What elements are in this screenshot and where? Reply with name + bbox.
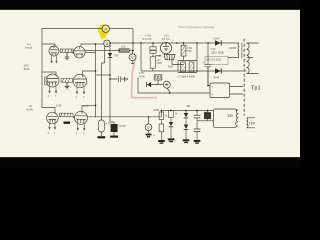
- heater pins row3: [49, 123, 86, 130]
- svg-text:D247: D247: [214, 37, 221, 41]
- series resistor to voltmeter V1 (grey box): [119, 49, 129, 53]
- rectifier module: [208, 67, 243, 98]
- svg-text:4,7k: 4,7k: [106, 121, 112, 125]
- svg-text:5B: 5B: [187, 104, 191, 108]
- svg-text:100: 100: [121, 45, 126, 49]
- svg-text:A: A: [104, 26, 107, 31]
- svg-text:7D5: 7D5: [114, 53, 119, 57]
- transformer Tp1 primary: [228, 43, 242, 59]
- tube V2a: [46, 74, 59, 87]
- svg-text:C10: C10: [211, 47, 216, 51]
- svg-text:V: V: [131, 55, 134, 60]
- bleeder resistor pair: [178, 43, 197, 73]
- grid bracket at tube V2a: [45, 77, 48, 85]
- wire: row3 feed: [42, 108, 55, 113]
- svg-text:C40 100,0(16): C40 100,0(16): [207, 60, 222, 62]
- wire: bus x101.5: [102, 63, 105, 120]
- resistor 470k: [181, 43, 186, 61]
- resistor R2 between row2 tubes: [61, 79, 73, 83]
- stack S4: electrolytics: [194, 111, 201, 140]
- ammeter A1: [102, 25, 109, 32]
- tube V2b: [73, 74, 87, 88]
- svg-text:500n: 500n: [168, 65, 174, 69]
- svg-text:U31: U31: [164, 34, 169, 38]
- svg-text:+: +: [211, 93, 213, 97]
- wire: tube V1a top lead: [42, 44, 55, 47]
- tube V1b: [74, 47, 85, 58]
- ground under capsule: [97, 136, 105, 138]
- stack S5: cap feeding Tp2: [197, 111, 213, 121]
- ground row1: [65, 53, 70, 60]
- diode on bus x110: [108, 53, 112, 58]
- trimmer cap x153: [150, 43, 156, 71]
- svg-text:6,3B: 6,3B: [56, 104, 62, 108]
- svg-text:45B: 45B: [154, 108, 159, 112]
- wire: center bus x95.5: [95, 44, 97, 118]
- svg-text:4x7: 4x7: [157, 58, 162, 62]
- ground row2: [65, 82, 70, 89]
- svg-text:6,3B: 6,3B: [83, 104, 89, 108]
- svg-text:V: V: [147, 125, 150, 130]
- heater pins row2: [49, 87, 85, 94]
- tube V3b: [75, 111, 88, 124]
- wire: tube V1b top lead to bus: [81, 44, 96, 47]
- svg-text:5U4T2B: 5U4T2B: [142, 37, 152, 41]
- rectifier tube U1: [155, 43, 184, 65]
- svg-text:16V: 16V: [249, 121, 256, 125]
- svg-text:23V: 23V: [228, 114, 235, 118]
- highlighted wire (pink marker) from voltmeter V1: [132, 55, 157, 98]
- svg-text:470n: 470n: [139, 74, 145, 78]
- wire: dc bus y110.5 riser: [160, 111, 162, 117]
- ammeter A2: [104, 40, 111, 47]
- wire: HT line y43: [110, 42, 237, 44]
- svg-text:n 7,5MqT 400B: n 7,5MqT 400B: [177, 75, 195, 79]
- svg-text:475B: 475B: [145, 34, 151, 38]
- wire: link bus y75: [96, 74, 111, 76]
- zener block near x114: [110, 122, 114, 124]
- diode D2 on return line: [215, 68, 221, 73]
- svg-text:Anod: Anod: [25, 45, 32, 49]
- svg-text:220B: 220B: [229, 46, 236, 50]
- Tp2 secondary 16V: [247, 118, 255, 128]
- wire: row1 second line: [85, 51, 96, 53]
- svg-text:6n9c: 6n9c: [27, 108, 34, 112]
- junction dots: [73, 42, 209, 118]
- dropper chain x141: [141, 43, 247, 71]
- svg-text:There is emergency Openings: There is emergency Openings: [178, 25, 215, 29]
- svg-text:10W: 10W: [157, 61, 163, 65]
- bottom voltmeter V2: [145, 117, 155, 138]
- svg-text:BU6: BU6: [24, 67, 30, 71]
- resistor R1 between row1 tubes: [61, 49, 74, 53]
- heater pins row1: [51, 56, 58, 63]
- stack S1: divider resistors: [159, 111, 164, 141]
- tube V3a: [47, 112, 59, 124]
- svg-text:A: A: [106, 41, 109, 46]
- svg-text:75B: 75B: [187, 49, 192, 53]
- transformer core (dashed): [243, 39, 245, 116]
- svg-text:+: +: [153, 134, 155, 138]
- svg-text:AN 842: AN 842: [162, 37, 171, 41]
- wire: corner down into HT line: [132, 29, 134, 51]
- wire: bus x110: [109, 43, 111, 122]
- voltmeter V1: [129, 51, 136, 64]
- svg-text:C70: C70: [139, 71, 144, 75]
- wire: A2 left lead: [96, 43, 104, 45]
- transformer Tp1 secondary: [247, 43, 259, 74]
- wire: A2 bottom lead: [104, 46, 106, 63]
- svg-text:+: +: [202, 61, 204, 65]
- svg-text:470k: 470k: [187, 46, 193, 50]
- tube V1a: [49, 46, 59, 56]
- wire: dc bus y110.5: [161, 110, 213, 112]
- svg-text:D245: D245: [213, 75, 220, 79]
- mains entry: plug, fuse, motor switch: [138, 75, 210, 93]
- stack S2: resistor + diode: [169, 111, 174, 123]
- highlight marker (yellow) on ammeter A1: [98, 24, 109, 39]
- text annotations: [24, 25, 236, 135]
- ground bar row3: [64, 122, 71, 124]
- ground under zener: [110, 136, 118, 138]
- svg-text:100,0 350B: 100,0 350B: [211, 50, 225, 54]
- electrolytic C10 string: [205, 43, 228, 86]
- wire: left vertical bus x42: [41, 29, 43, 108]
- black letterbox bars: [0, 0, 300, 10]
- cap branch y79: [110, 76, 128, 82]
- wire: row2 tube top lead: [42, 72, 56, 74]
- svg-text:~: ~: [211, 85, 213, 89]
- svg-text:n4700: n4700: [119, 124, 127, 128]
- diode D1 on HT line: [215, 40, 221, 45]
- stack S3: double diode: [183, 111, 190, 144]
- wire: anode line row1 y50.5: [85, 50, 133, 52]
- electrolytic capsule near x101: [98, 120, 104, 132]
- wire: row2 right tube top lead: [83, 71, 96, 75]
- svg-text:Tp1: Tp1: [251, 86, 261, 92]
- wire: heater bottom line y117.5: [88, 116, 162, 118]
- schematic paper background: [0, 10, 300, 158]
- wire: top feed line y28.5: [42, 28, 133, 30]
- wire: row3 right tube top lead: [82, 105, 96, 111]
- transformer Tp2 (heater supply): [213, 109, 238, 128]
- resistor R3 between row3 tubes: [60, 113, 74, 117]
